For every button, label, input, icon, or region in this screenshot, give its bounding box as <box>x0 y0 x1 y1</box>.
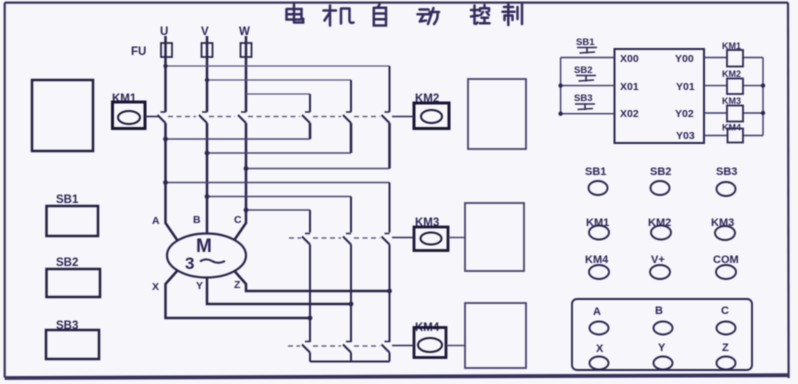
svg-text:C: C <box>234 214 242 226</box>
svg-text:Y03: Y03 <box>676 130 695 142</box>
svg-text:KM3: KM3 <box>722 96 741 106</box>
svg-text:3: 3 <box>185 254 194 273</box>
svg-text:X: X <box>596 343 604 355</box>
svg-text:W: W <box>239 26 250 38</box>
svg-text:SB2: SB2 <box>650 166 671 178</box>
svg-text:SB1: SB1 <box>56 194 79 206</box>
svg-text:U: U <box>160 26 168 38</box>
svg-text:B: B <box>193 214 201 226</box>
svg-text:X01: X01 <box>620 81 639 93</box>
svg-text:KM4: KM4 <box>722 123 741 133</box>
svg-text:SB1: SB1 <box>576 37 595 48</box>
svg-text:SB3: SB3 <box>574 93 592 104</box>
svg-text:X02: X02 <box>620 108 639 120</box>
svg-text:KM2: KM2 <box>722 69 741 79</box>
svg-text:SB2: SB2 <box>56 257 78 269</box>
svg-text:Y01: Y01 <box>676 81 695 93</box>
svg-text:B: B <box>655 305 663 317</box>
svg-text:KM1: KM1 <box>722 41 741 51</box>
svg-text:A: A <box>152 215 160 227</box>
svg-text:Z: Z <box>234 279 241 291</box>
svg-text:SB1: SB1 <box>585 166 606 178</box>
svg-text:SB3: SB3 <box>716 166 737 178</box>
svg-text:Y02: Y02 <box>675 108 694 120</box>
svg-text:A: A <box>593 306 601 318</box>
svg-text:M: M <box>196 236 212 257</box>
svg-text:C: C <box>721 305 729 317</box>
svg-text:SB2: SB2 <box>574 65 592 76</box>
svg-text:X: X <box>152 281 159 293</box>
svg-text:Y: Y <box>658 342 666 354</box>
svg-text:Y: Y <box>196 280 203 292</box>
svg-text:Y00: Y00 <box>675 53 694 65</box>
svg-text:FU: FU <box>131 46 146 58</box>
svg-text:X00: X00 <box>620 53 639 65</box>
svg-text:Z: Z <box>722 342 729 354</box>
